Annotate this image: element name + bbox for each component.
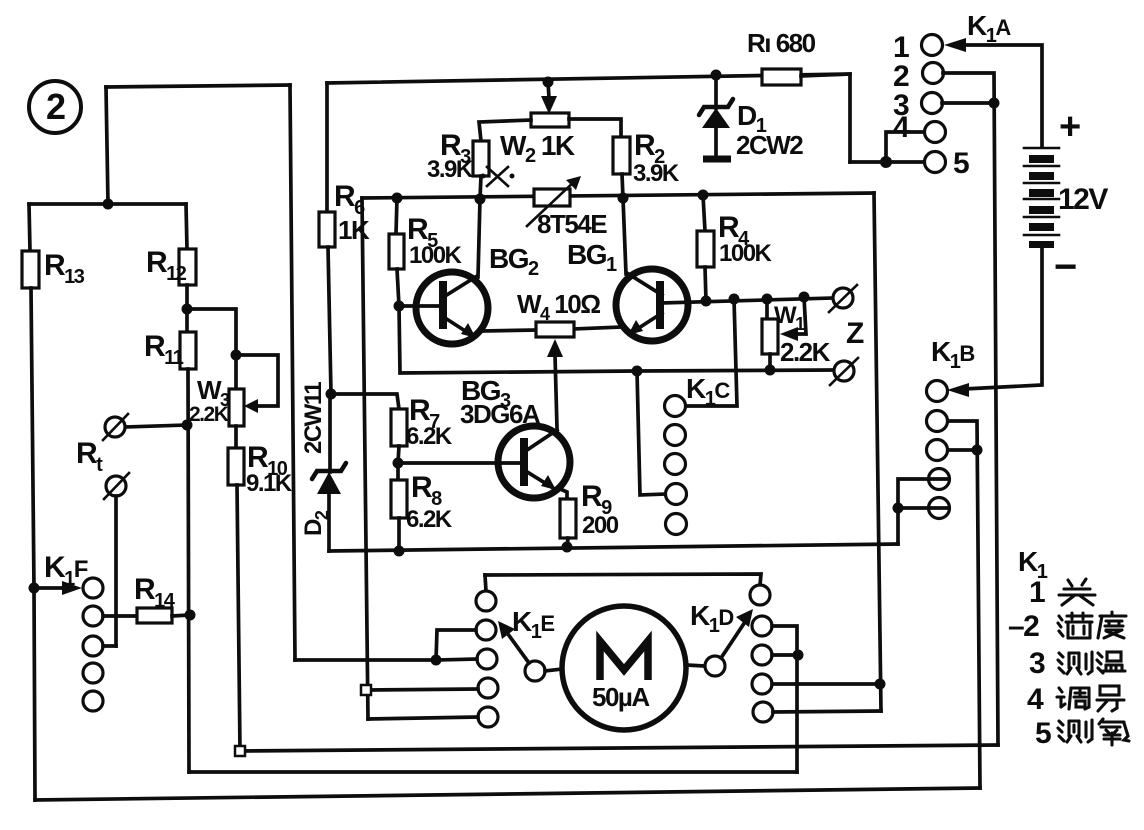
wire K1E contact3 to hook xyxy=(436,659,477,660)
terminal Rt upper (circle with slash) xyxy=(103,414,128,440)
switch K1B contact 3 xyxy=(927,440,948,461)
node junction K1C drop on base line xyxy=(729,294,740,305)
transistor BG3 xyxy=(498,426,570,498)
wire K1D contact4 right to box-right vertical xyxy=(772,682,881,686)
wire R10 bottom vertical to bottom bus A xyxy=(237,485,240,751)
node junction R8 on bottom rail xyxy=(394,546,405,557)
switch K1D contact 3 xyxy=(752,645,772,665)
zener diode D2 xyxy=(312,394,346,551)
glyph ling (set) xyxy=(1097,686,1124,711)
wire long feed from top-left vertical to K1E xyxy=(295,658,436,662)
node junction at R13/R12 tee xyxy=(103,199,114,210)
wire R13 top stem xyxy=(29,204,30,251)
node junction R12/R11/W3 xyxy=(182,304,193,315)
wire BG2 collector up to rail xyxy=(478,199,480,277)
wire bottom bus B (R11 line to K1D hook) xyxy=(189,770,797,774)
svg-text:+: + xyxy=(1059,106,1080,148)
trimmer 8T54E on rail xyxy=(527,176,581,226)
wire Rt lower terminal down to K1F contact 3 xyxy=(114,496,118,646)
svg-text:100K: 100K xyxy=(409,242,463,269)
svg-text:4: 4 xyxy=(893,111,910,144)
glyph wen (temperature) xyxy=(1097,652,1125,673)
node junction R4 top on rail xyxy=(698,190,709,201)
wire horizontal above R13/R12 xyxy=(29,202,186,206)
switch K1B contact 1 xyxy=(927,381,948,402)
wire R2 bottom stem xyxy=(622,174,623,198)
resistor R14 xyxy=(137,608,172,623)
wire R8 bottom stem xyxy=(397,518,401,551)
wire K1C drop vertical xyxy=(686,299,737,406)
svg-text:3DG6A: 3DG6A xyxy=(460,399,541,429)
svg-text:5: 5 xyxy=(1035,717,1051,750)
wire K1B contact5 to hook xyxy=(898,506,948,510)
wire K1B contact3 to drop xyxy=(948,448,977,452)
switch K1F contact 1 xyxy=(83,578,103,598)
node junction W1 top stem xyxy=(762,294,773,305)
W4 wiper arrowhead xyxy=(547,339,563,357)
svg-text:Rı 680: Rı 680 xyxy=(747,28,816,58)
switch K1B contact 4 xyxy=(929,469,950,490)
resistor R5 xyxy=(389,234,404,269)
node small square corner at R10 xyxy=(235,746,245,756)
resistor Ri 680 xyxy=(762,69,801,85)
svg-text:1K: 1K xyxy=(338,215,370,245)
wire R9 bottom stem xyxy=(567,538,568,547)
node junction contact3 hook xyxy=(431,655,442,666)
svg-text:6.2K: 6.2K xyxy=(406,506,453,533)
wire BG1 base line right to Z upper terminal xyxy=(662,298,833,303)
svg-text:2: 2 xyxy=(46,86,65,127)
svg-text:Z: Z xyxy=(846,317,864,350)
svg-text:2.2K: 2.2K xyxy=(780,337,831,367)
node junction R7/R8/BG3 base xyxy=(393,458,404,469)
switch K1C contact 2 xyxy=(665,425,686,446)
potentiometer W4 xyxy=(536,322,574,337)
switch K1C contact 3 xyxy=(665,454,686,475)
W3 wiper arrowhead xyxy=(244,399,258,413)
potentiometer W3 xyxy=(229,389,244,426)
wire bottom bus C (outer, R13 line to K1B drop) xyxy=(35,788,980,800)
svg-text:2CW11: 2CW11 xyxy=(300,382,327,454)
wire W3 bottom to R10 xyxy=(234,426,238,448)
K1A arrowhead xyxy=(944,38,966,52)
node junction K1F feed on left vertical xyxy=(29,583,40,594)
switch K1F contact 3 xyxy=(83,636,103,656)
switch K1E contact 5 xyxy=(478,707,498,727)
wire R4 top stem xyxy=(703,195,705,231)
transistor BG2 xyxy=(416,272,488,344)
switch K1F contact 5 xyxy=(83,691,103,711)
node junction R2/BG1 collector on rail xyxy=(618,193,629,204)
wire battery minus down to K1B xyxy=(963,248,1042,389)
glyph du (degree) xyxy=(1098,612,1126,638)
switch K1E contact 4 xyxy=(478,678,498,698)
svg-text:50µA: 50µA xyxy=(592,682,650,712)
switch K1D contact 5 xyxy=(753,702,773,722)
inner circuit box top rail xyxy=(362,193,874,198)
wire K1E contact5 left to box-left vertical bottom corner xyxy=(368,717,478,719)
wire K1E contact4 left to box-left vertical xyxy=(371,689,478,690)
wire meter bridge between K1E and K1D tops xyxy=(485,574,761,585)
switch K1D moving contact and arm xyxy=(705,609,753,676)
wire BG3 emitter to R9 xyxy=(558,488,567,499)
wire W1 wiper arm xyxy=(795,297,806,334)
switch K1F contact 4 xyxy=(83,663,103,683)
wire W3 wiper tie arm xyxy=(236,355,278,406)
node junction R4/base line xyxy=(701,296,712,307)
terminal 1 xyxy=(922,35,943,56)
wire BG3 base from R7/R8 node xyxy=(398,461,524,465)
glyph yang (oxygen) xyxy=(1099,719,1129,745)
wire D2 node right to R7 top xyxy=(331,394,399,409)
wire K1C contact4 branch vertical xyxy=(637,371,666,495)
wire BG1 collector up to rail xyxy=(623,198,626,274)
svg-text:–2: –2 xyxy=(1008,610,1039,643)
svg-text:4: 4 xyxy=(1027,683,1044,716)
wire BG2 base node down and right (tap line to Z lower) xyxy=(399,306,833,373)
switch K1E contact 3 xyxy=(477,649,497,669)
wire terminal 4 hook xyxy=(886,132,924,162)
node junction R3/BG2 collector on rail xyxy=(475,194,486,205)
wire K1B contact2 to right drop xyxy=(948,421,980,788)
wire R3 bottom stem xyxy=(480,176,481,199)
node junction terminal 3 on vertical xyxy=(989,98,1000,109)
svg-text:−: − xyxy=(1054,245,1076,289)
svg-text:100K: 100K xyxy=(719,240,773,267)
glyph man (full) xyxy=(1058,613,1092,638)
wire Rt upper terminal to R11 line xyxy=(125,425,187,427)
meter M 50uA xyxy=(562,606,686,730)
node junction R11 line with Rt wire xyxy=(182,420,193,431)
svg-text:3.9K: 3.9K xyxy=(633,160,680,187)
svg-text:3: 3 xyxy=(1029,647,1045,680)
node junction R14/R11 line xyxy=(185,610,196,621)
node junction contact5 on hook xyxy=(893,503,904,514)
wire from node right to W3 top xyxy=(187,309,236,389)
node junction D1 on top rail xyxy=(711,70,722,81)
wire W4 wiper stem down to BG3 collector xyxy=(555,355,557,428)
terminal Rt lower (circle with slash) xyxy=(104,473,129,499)
svg-text:2.2K: 2.2K xyxy=(189,403,229,426)
wire K1A arm from battery plus xyxy=(960,45,1042,146)
resistor R2 xyxy=(613,137,630,174)
svg-text:9.1K: 9.1K xyxy=(246,470,293,497)
wire R4 bottom to BG1 base line xyxy=(705,267,706,301)
terminal 4 xyxy=(925,122,946,143)
inner circuit box left edge xyxy=(362,198,368,719)
switch K1B contact 5 xyxy=(929,498,950,519)
inner circuit bottom rail xyxy=(329,544,898,551)
zener diode D1 xyxy=(699,75,733,159)
wire R14 right to R11 line xyxy=(172,615,190,616)
node junction BG2 base / R5 xyxy=(394,301,405,312)
terminal 5 xyxy=(925,152,946,173)
wire K1D contact3 to hook xyxy=(772,653,798,657)
node junction R5 top on rail xyxy=(392,193,403,204)
wire terminal 3 to right vertical xyxy=(942,101,994,105)
resistor R3 xyxy=(473,141,489,176)
resistor R10 xyxy=(228,448,244,485)
resistor R4 xyxy=(697,231,714,267)
resistor R12 xyxy=(179,249,196,285)
svg-text:2CW2: 2CW2 xyxy=(736,130,803,160)
node junction W2 wiper on top rail xyxy=(543,77,554,88)
switch K1F contact 2 xyxy=(83,606,103,626)
wire R5 top stem xyxy=(396,198,397,234)
svg-text:200: 200 xyxy=(582,512,619,539)
wire terminal 2 to right vertical xyxy=(943,73,998,745)
terminal 3 xyxy=(922,93,943,114)
wire K1D contact5 right to box-right vertical bottom corner xyxy=(773,711,881,712)
wire top-left left vertical xyxy=(106,87,108,204)
svg-text:3.9K: 3.9K xyxy=(427,156,474,183)
switch K1E contact 2 xyxy=(476,620,496,640)
wire R11 top stem xyxy=(185,309,189,332)
terminal Z upper (circle with slash) xyxy=(829,285,857,312)
node small square junction on box-left vertical xyxy=(361,685,371,695)
node junction contact3 hook xyxy=(793,650,804,661)
figure number badge (2) xyxy=(29,81,81,133)
wire R13 bottom long left vertical xyxy=(31,288,35,800)
svg-text:W4 10Ω: W4 10Ω xyxy=(517,289,600,324)
wire R12 top stem xyxy=(186,204,187,249)
wire meter right lead xyxy=(686,665,705,666)
resistor R11 xyxy=(180,332,196,369)
node junction R6/D2/R7 xyxy=(326,389,337,400)
svg-text:8T54E: 8T54E xyxy=(537,209,607,239)
node junction W1 bottom on tap line xyxy=(765,365,776,376)
transistor BG1 xyxy=(616,269,688,341)
wire R8 top stem xyxy=(396,463,400,480)
W1 wiper arrowhead xyxy=(780,327,798,341)
wire K1F contact3 short hook to Rt line xyxy=(103,644,116,648)
wire meter left lead xyxy=(545,669,562,671)
resistor R9 xyxy=(560,499,576,538)
wire bottom bus A (R10 to terminal-2 vertical) xyxy=(240,745,998,751)
wire top-left horizontal xyxy=(106,85,290,87)
wire BG1 emitter to W4 right xyxy=(573,327,621,329)
wire K1F contact2 to R14 xyxy=(103,614,137,618)
resistor R13 xyxy=(22,251,39,288)
wire Ri right to corner and down xyxy=(801,74,850,162)
wire BG2 emitter to W4 left xyxy=(483,330,536,331)
node junction terminal-5 feed xyxy=(880,156,892,168)
wire K1F arm with arrowhead xyxy=(34,586,66,590)
inner circuit box right edge xyxy=(874,193,881,711)
wire R6 bottom down to D2 node xyxy=(328,247,331,394)
reference mark xyxy=(481,167,515,186)
switch K1E moving contact and arm xyxy=(498,621,545,681)
glyph ce (measure) xyxy=(1058,720,1092,742)
switch K1D contact 1 xyxy=(750,585,770,605)
wire W1 bottom stem xyxy=(768,354,772,370)
terminal 2 xyxy=(923,63,944,84)
wire K1E contact2 left hook down xyxy=(436,630,476,660)
wire main top rail (right part) xyxy=(327,74,850,83)
switch K1E contact 1 xyxy=(476,591,496,611)
svg-text:6.2K: 6.2K xyxy=(406,423,453,450)
switch K1C contact 4 xyxy=(666,484,687,505)
switch K1D contact 4 xyxy=(752,674,772,694)
node junction on W3 top stem for wiper tie xyxy=(231,350,242,361)
potentiometer W1 xyxy=(762,319,778,354)
node junction contact4 on box-right vertical xyxy=(875,679,886,690)
wire W2 right end to R2 xyxy=(569,119,621,137)
switch K1C contact 5 xyxy=(666,514,687,535)
node junction R9 on bottom rail xyxy=(562,542,573,553)
svg-text:12V: 12V xyxy=(1058,183,1108,216)
wire K1D contact2 right hook down xyxy=(772,626,797,772)
glyph guan (off) xyxy=(1059,579,1095,605)
wire W2 left end to R3 xyxy=(479,120,531,141)
glyph ce (measure) xyxy=(1058,652,1092,674)
node junction contact3 on drop xyxy=(972,445,983,456)
wire R7 body xyxy=(391,409,407,446)
wire R5 bottom to BG2 base node xyxy=(397,269,399,306)
terminal Z lower (circle with slash) xyxy=(830,358,858,385)
glyph diao (adjust) xyxy=(1057,688,1089,709)
wire K1B contact4 hook left xyxy=(898,479,948,544)
wire R11 bottom long vertical down to bottom bus xyxy=(188,369,189,772)
switch K1C contact 1 xyxy=(665,396,686,417)
node junction W1 wiper on base line xyxy=(799,292,810,303)
wire to terminal 5 xyxy=(850,160,924,164)
wire bridge left drop xyxy=(485,575,486,591)
battery 12V xyxy=(1024,148,1059,248)
potentiometer W2 xyxy=(531,113,569,127)
node junction tap line / K1C branch xyxy=(632,366,643,377)
wire R6 top stem xyxy=(325,83,329,212)
wire R7 bottom to node xyxy=(398,446,399,463)
svg-text:5: 5 xyxy=(953,147,969,180)
wire W1 top stem xyxy=(765,299,769,319)
wire BG2 base xyxy=(399,304,440,308)
wire R12 bottom to node xyxy=(185,285,189,309)
switch K1D contact 2 xyxy=(752,616,772,636)
K1B arrowhead xyxy=(947,383,969,397)
wire W2 wiper from top rail with arrow xyxy=(541,82,557,114)
switch K1B contact 2 xyxy=(927,411,948,432)
resistor R6 xyxy=(319,212,335,247)
resistor R8 xyxy=(391,480,407,518)
svg-text:1: 1 xyxy=(1029,576,1045,609)
wire long vertical from top-left corner down to K1E row xyxy=(290,85,295,660)
